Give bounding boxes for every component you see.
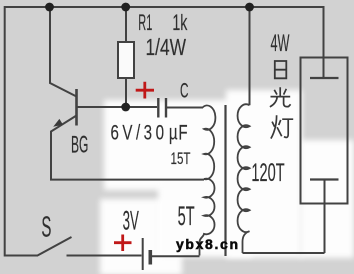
transistor BG emitter with arrow — [51, 116, 77, 132]
svg-text:15T: 15T — [171, 149, 191, 168]
transistor BG base bar — [75, 89, 78, 126]
resistor R1 bottom lead — [125, 78, 127, 104]
battery BT 3V long positive plate — [142, 238, 144, 270]
lamp bottom stem wire — [324, 180, 326, 254]
secondary rail from top wire — [249, 7, 251, 105]
resistor R1 top lead — [125, 7, 127, 42]
wire battery to primary winding bottom — [152, 255, 200, 257]
transformer secondary winding 120T — [238, 104, 250, 253]
junction dot top R1 — [121, 3, 130, 12]
base lead wire — [78, 106, 124, 108]
svg-text:6V/30: 6V/30 — [110, 120, 167, 144]
wire secondary bottom to lamp — [243, 252, 325, 254]
svg-text:BG: BG — [71, 132, 88, 159]
collector rail wire — [50, 7, 77, 97]
emitter rail down and feedback wire to winding tap — [51, 131, 204, 180]
switch S — [37, 237, 142, 256]
wire junction to capacitor — [130, 106, 157, 108]
svg-text:1k: 1k — [172, 10, 188, 35]
battery short negative plate — [149, 250, 153, 265]
capacitor C left plate — [157, 98, 159, 118]
capacitor value 6V/30uF — [110, 120, 188, 144]
resistor R1 body — [118, 42, 134, 78]
white patch bottom right lamp area — [226, 90, 302, 258]
fluorescent lamp tube body — [301, 58, 348, 204]
svg-text:µF: µF — [169, 120, 188, 144]
top wire with right corner down to lamp — [5, 7, 324, 78]
svg-text:4W: 4W — [271, 30, 290, 57]
transformer primary winding 5T section — [200, 179, 215, 256]
lamp character ri (sun) — [275, 61, 287, 78]
svg-text:R1: R1 — [138, 10, 152, 35]
lamp top electrode — [310, 77, 339, 79]
svg-text:1/4W: 1/4W — [146, 34, 187, 60]
left rail wire — [5, 6, 38, 256]
transformer primary winding 15T section — [203, 105, 216, 179]
wire capacitor to primary winding top — [167, 107, 203, 109]
capacitor C right plate — [165, 98, 167, 118]
lamp character guang (light) — [270, 87, 291, 107]
junction dot base node — [121, 103, 130, 112]
junction dot top secondary — [245, 3, 254, 12]
white patch behind 3V battery — [100, 199, 182, 274]
lamp character deng (lamp) — [271, 115, 293, 138]
junction dot top left — [45, 3, 54, 12]
svg-text:120T: 120T — [251, 159, 284, 187]
svg-text:S: S — [41, 212, 51, 244]
lamp bottom electrode — [310, 178, 339, 180]
svg-text:5T: 5T — [178, 201, 195, 231]
svg-text:3V: 3V — [123, 206, 139, 236]
transformer core line — [224, 105, 226, 256]
red plus annotation at battery — [114, 235, 132, 252]
svg-text:C: C — [180, 80, 189, 103]
red plus annotation near capacitor — [136, 82, 154, 99]
white patch behind 5T and watermark — [158, 185, 252, 257]
svg-text:ybx8.cn: ybx8.cn — [176, 236, 238, 252]
white patch behind 6V/30uF and 15T — [104, 100, 236, 190]
